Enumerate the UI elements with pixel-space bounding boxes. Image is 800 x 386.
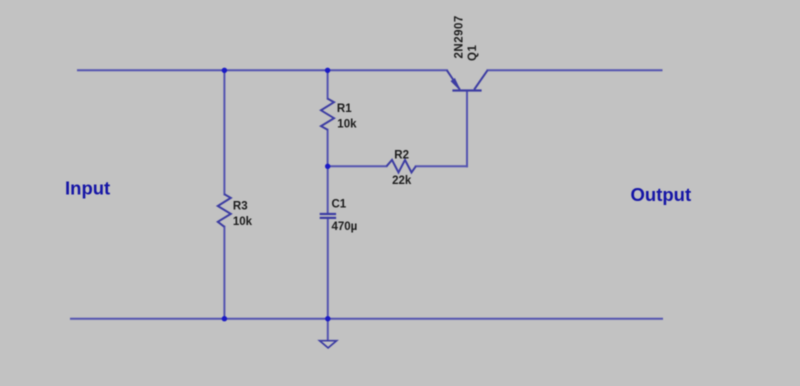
svg-text:10k: 10k (233, 216, 253, 228)
node bottom rail / R3 junction (222, 316, 227, 321)
wire top rail left (78, 69, 447, 71)
svg-text:C1: C1 (332, 198, 347, 210)
wire top rail right (488, 69, 662, 71)
svg-text:Q1: Q1 (467, 45, 479, 61)
svg-text:Output: Output (631, 184, 692, 205)
node bottom rail / C1 junction (325, 316, 330, 321)
wire collector riser (466, 91, 468, 167)
wire R2 right lead (416, 165, 467, 167)
node top rail / R1 junction (325, 68, 330, 73)
wire node to C1 top plate (327, 166, 329, 214)
svg-text:R2: R2 (394, 150, 409, 162)
resistor R1 (321, 99, 334, 130)
resistor R2 (387, 160, 416, 173)
svg-text:22k: 22k (392, 175, 412, 187)
wire R3 lower lead (223, 227, 225, 319)
wire bottom rail (71, 318, 662, 320)
svg-text:R3: R3 (233, 200, 248, 212)
wire R3 upper lead (223, 70, 225, 194)
svg-text:470µ: 470µ (332, 221, 358, 233)
transistor Q1 (447, 70, 488, 90)
svg-text:Input: Input (65, 178, 110, 199)
resistor R3 (218, 194, 231, 227)
svg-text:2N2907: 2N2907 (453, 15, 465, 58)
svg-text:R1: R1 (337, 103, 352, 115)
wire R1 upper lead (327, 70, 329, 98)
svg-text:10k: 10k (337, 119, 357, 131)
node top rail / R3 junction (222, 68, 227, 73)
capacitor C1 (320, 214, 336, 218)
ground (320, 341, 337, 348)
node R1 / R2 / C1 junction (325, 164, 330, 169)
wire R1 lower lead (327, 130, 329, 167)
wire R2 left lead (328, 165, 387, 167)
wire C1 bottom to ground (327, 218, 329, 341)
